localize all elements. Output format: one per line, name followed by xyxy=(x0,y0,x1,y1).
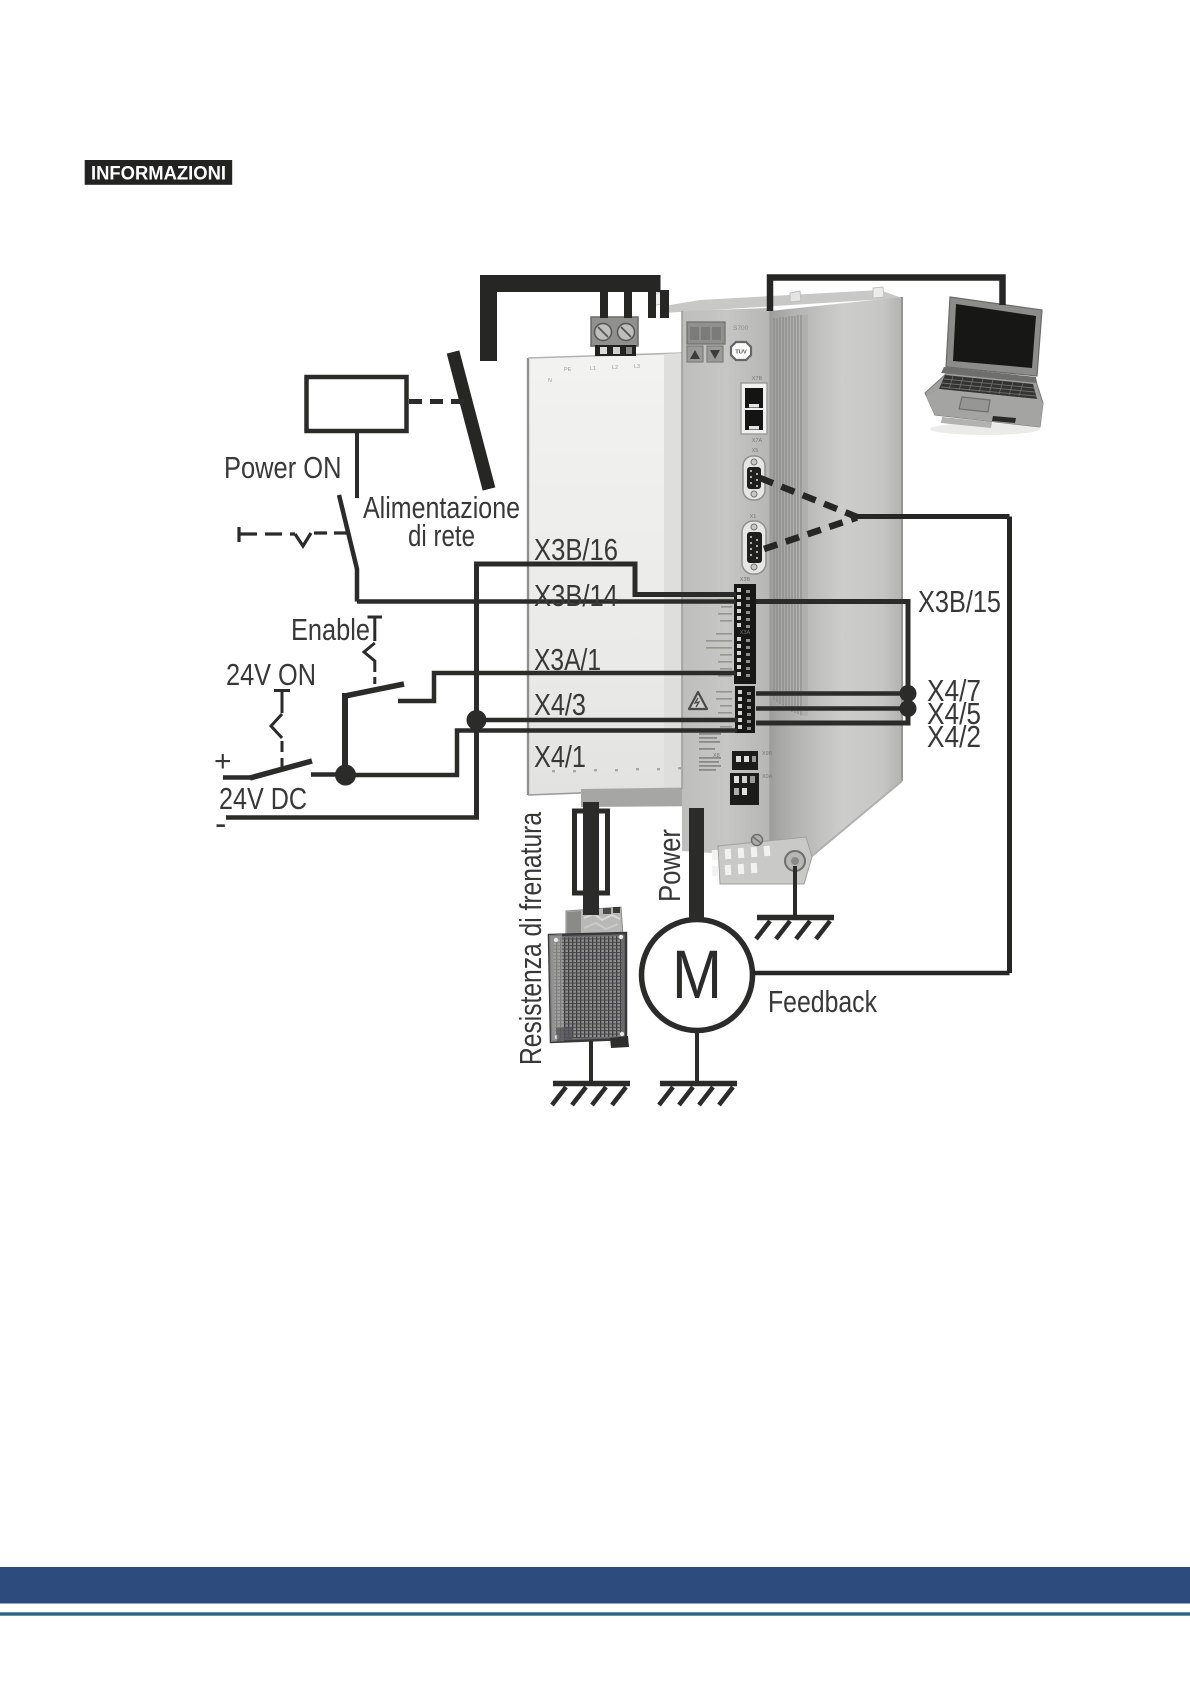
laptop front edge xyxy=(941,417,992,428)
wire X4/5 xyxy=(756,706,908,711)
linkage dashed line right xyxy=(314,531,347,534)
linkage tick xyxy=(237,527,240,542)
enable button symbol xyxy=(364,617,382,684)
svg-text:X3A/1: X3A/1 xyxy=(534,643,601,677)
ground (resistor) xyxy=(552,1041,630,1105)
mains conductor drop L1 xyxy=(600,290,608,318)
laptop touchpad xyxy=(959,397,990,412)
text labels xyxy=(214,451,1001,1065)
junction dot X4/5 xyxy=(900,700,917,717)
connector X0A xyxy=(730,773,773,805)
24V plus lead xyxy=(223,775,252,780)
brake resistor xyxy=(549,907,629,1048)
svg-text:N: N xyxy=(548,378,552,384)
dashed feedback X1 xyxy=(764,518,857,550)
svg-text:24V ON: 24V ON xyxy=(226,658,316,692)
svg-text:Power ON: Power ON xyxy=(224,451,342,485)
footer blue bar xyxy=(0,1567,1190,1604)
front screw xyxy=(752,835,763,846)
svg-text:X7A: X7A xyxy=(752,438,763,444)
svg-text:INFORMAZIONI: INFORMAZIONI xyxy=(91,164,226,185)
svg-text:X7B: X7B xyxy=(752,376,763,382)
enable feed vertical xyxy=(342,693,348,775)
svg-text:Enable: Enable xyxy=(291,613,370,647)
svg-text:Resistenza di frenatura: Resistenza di frenatura xyxy=(514,812,548,1065)
svg-text:Feedback: Feedback xyxy=(768,985,878,1019)
drive front plate xyxy=(528,353,682,795)
svg-text:X9B: X9B xyxy=(762,751,773,757)
linkage dashed line left xyxy=(240,532,295,535)
svg-text:X3B/16: X3B/16 xyxy=(534,533,618,567)
laptop shadow xyxy=(930,423,1040,435)
mains terminal block xyxy=(591,317,638,356)
svg-text:+: + xyxy=(214,745,232,778)
resistor cable xyxy=(583,802,599,915)
laptop cable xyxy=(770,278,1003,312)
X4 pin tiny labels xyxy=(716,691,732,728)
svg-text:X5: X5 xyxy=(752,448,759,454)
TUV logo xyxy=(731,342,751,360)
laptop port slot xyxy=(992,416,1016,423)
wire X3B/16 xyxy=(477,564,737,595)
circuit breaker blade xyxy=(453,352,489,489)
svg-text:X0A: X0A xyxy=(762,774,773,780)
ground (motor) xyxy=(659,1031,737,1105)
svg-text:X4/2: X4/2 xyxy=(927,720,981,754)
laptop xyxy=(925,297,1043,435)
D-sub X1 xyxy=(742,514,766,574)
wire X3A/1 xyxy=(398,673,736,701)
riser X3B/16 to minus rail xyxy=(474,562,479,818)
connector X8 xyxy=(713,751,773,770)
up button xyxy=(687,346,703,362)
svg-text:X3A: X3A xyxy=(740,630,751,636)
junction dot X4/3 xyxy=(467,710,487,730)
svg-text:Power: Power xyxy=(653,829,687,902)
plate bottom strip xyxy=(581,787,722,807)
svg-text:M: M xyxy=(672,936,722,1013)
24V contact lead xyxy=(311,772,336,777)
terminal strip X3 xyxy=(734,577,756,684)
24V ON button symbol xyxy=(271,691,290,769)
servo drive S700 body xyxy=(528,287,902,884)
feedback wire to motor xyxy=(753,971,1010,976)
drive center column xyxy=(682,308,770,857)
mains conductor drop PE xyxy=(660,290,669,318)
wire X4/3 xyxy=(477,718,738,723)
power on switch blade xyxy=(339,495,357,602)
junction dot 24V xyxy=(335,765,356,786)
wire X4/1 xyxy=(345,731,737,776)
laptop lid xyxy=(946,297,1042,376)
product label text block xyxy=(699,733,721,771)
resistor top bracket xyxy=(566,907,623,938)
ground (drive) xyxy=(756,866,834,939)
svg-text:L3: L3 xyxy=(634,364,640,370)
mains conductor drop L2 xyxy=(624,290,632,318)
wire X3B/15 loop xyxy=(756,602,908,724)
svg-text:X1: X1 xyxy=(750,514,757,520)
mains conductor drop L3 xyxy=(648,290,656,318)
24V switch blade xyxy=(250,761,312,778)
minus rail 24V DC xyxy=(226,815,479,820)
fuse box on resistor cable xyxy=(575,811,608,893)
ground lug on flange xyxy=(785,851,805,871)
laptop base xyxy=(925,372,1043,427)
bottom flange xyxy=(712,837,812,884)
svg-text:di rete: di rete xyxy=(408,519,475,553)
svg-text:X3B: X3B xyxy=(740,577,751,583)
resistor foot xyxy=(610,1036,629,1048)
relay coil Power ON box xyxy=(307,377,407,431)
drive heatsink fins xyxy=(774,315,801,715)
linkage chevron xyxy=(295,533,311,546)
svg-text:X3B/15: X3B/15 xyxy=(918,585,1001,619)
D-sub X5 xyxy=(743,448,765,500)
svg-text:X3B/14: X3B/14 xyxy=(534,579,618,613)
LED display xyxy=(687,322,725,344)
wire X4/7 xyxy=(756,691,908,696)
plate top tiny labels PE L1 L2 L3 xyxy=(548,364,640,384)
svg-text:PE: PE xyxy=(564,367,572,373)
laptop hinge xyxy=(941,367,1037,383)
resistor body xyxy=(549,933,626,1042)
svg-text:X4/3: X4/3 xyxy=(534,688,586,722)
info label INFORMAZIONI xyxy=(85,160,233,185)
terminal strip X4 xyxy=(735,686,755,733)
svg-text:L1: L1 xyxy=(590,366,596,372)
laptop screen xyxy=(953,304,1036,368)
svg-text:TUV: TUV xyxy=(735,350,747,356)
motor M xyxy=(642,920,753,1031)
feedback line to riser xyxy=(855,514,1010,519)
laptop keyboard xyxy=(939,375,1037,399)
drive side panel xyxy=(770,297,902,861)
mains supply cable xyxy=(489,284,661,362)
dashed link coil to breaker xyxy=(409,399,470,404)
ethernet jacks X7 xyxy=(741,376,767,444)
drive top tabs xyxy=(650,287,884,306)
junction dot X4/7 xyxy=(900,685,917,702)
laptop palmrest xyxy=(926,389,1043,427)
svg-text:X4/1: X4/1 xyxy=(534,740,586,774)
X3 pin tiny labels xyxy=(706,592,732,677)
plate bottom tick row xyxy=(552,767,702,772)
svg-text:S700: S700 xyxy=(733,325,749,332)
feedback riser xyxy=(1007,517,1012,974)
wire coil to switch xyxy=(355,431,359,498)
enable switch blade xyxy=(345,684,404,696)
drive side shading xyxy=(800,315,808,717)
svg-text:X8: X8 xyxy=(713,753,720,759)
wire X3B/14 xyxy=(357,599,736,604)
warning triangle xyxy=(689,692,707,709)
svg-text:24V DC: 24V DC xyxy=(219,782,307,816)
footer thin blue line xyxy=(0,1612,1190,1615)
dashed feedback X5 xyxy=(760,478,857,517)
down button xyxy=(707,346,723,362)
svg-text:-: - xyxy=(215,805,226,843)
drive top face xyxy=(664,290,902,313)
motor power cable xyxy=(689,808,704,919)
svg-text:L2: L2 xyxy=(612,365,618,371)
